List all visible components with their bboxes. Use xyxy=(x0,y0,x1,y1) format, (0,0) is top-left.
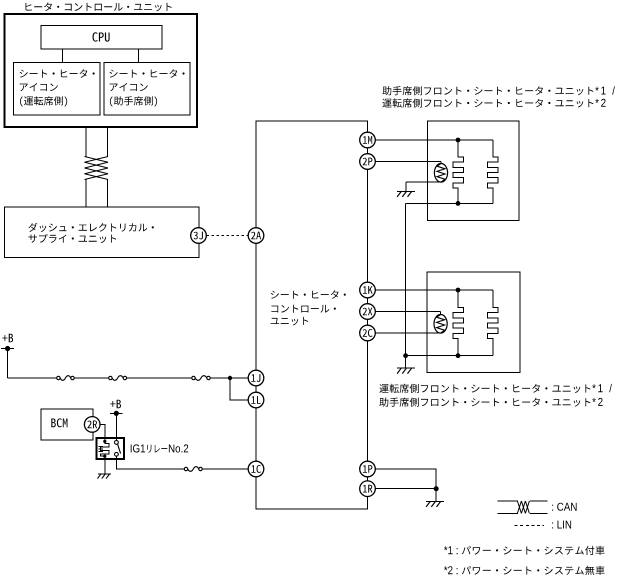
connector 1C xyxy=(248,461,264,477)
thermistor 1 xyxy=(434,164,447,183)
front seat heater unit 2 label xyxy=(379,384,612,407)
legend CAN twisted pair symbol xyxy=(498,501,548,513)
ground G3 xyxy=(426,501,444,507)
front seat heater unit 2 box xyxy=(427,272,520,372)
wire 2X to thermistor 2 xyxy=(375,311,440,313)
seat heater control unit label xyxy=(271,290,346,325)
wire 1M to heater elements xyxy=(375,139,493,141)
connector 1P xyxy=(360,461,376,477)
seat heater control unit box xyxy=(256,121,368,509)
node junction bottom 1 xyxy=(456,201,461,206)
wire relay to 1C xyxy=(116,456,184,469)
connector 2C xyxy=(360,325,376,341)
note *1 xyxy=(444,546,605,555)
relay IG1 No.2 box xyxy=(97,438,125,459)
front seat heater unit 1 box xyxy=(428,121,519,221)
wire 1K to heater elements xyxy=(375,289,493,291)
heater element 1b xyxy=(487,140,498,203)
fuse F4 xyxy=(184,467,202,472)
heater control unit box xyxy=(5,14,198,127)
node junction ground 2 xyxy=(403,353,408,358)
node junction 1P/1R ground xyxy=(434,486,439,491)
CPU label xyxy=(93,32,110,41)
heater element 2b xyxy=(487,290,498,356)
node junction top 1 xyxy=(456,138,461,143)
ground G1 xyxy=(397,191,415,197)
BCM box xyxy=(41,409,93,440)
connector 1R xyxy=(360,481,376,497)
wire 2C to thermistor 2 xyxy=(375,332,440,334)
connector 2R xyxy=(84,417,100,433)
heater element 1a xyxy=(453,140,464,203)
relay coil xyxy=(98,440,109,458)
connector 3J xyxy=(191,228,207,244)
wire 1P to ground xyxy=(375,469,436,489)
wire +B to 1J xyxy=(8,377,57,379)
wire relay coil to ground xyxy=(104,456,106,474)
node junction bottom 2 xyxy=(456,353,461,358)
wire to 1L xyxy=(230,378,248,400)
node junction top 2 xyxy=(456,288,461,293)
node junction 1J/1L xyxy=(228,376,232,380)
+B terminal 1 xyxy=(1,346,14,351)
wire bottom rail 1 xyxy=(406,202,493,204)
wire +B down xyxy=(7,349,9,379)
wire 2R to relay coil xyxy=(100,424,105,441)
wire LIN 3J to 2A xyxy=(206,235,248,237)
wire CPU to left icon xyxy=(62,49,64,63)
fuse F3 xyxy=(192,376,210,381)
relay IG1 No.2 label xyxy=(131,444,189,452)
+B terminal 2 xyxy=(110,411,123,416)
+B battery label 2 xyxy=(110,400,121,409)
legend LIN dashed symbol xyxy=(515,524,544,526)
connector 1J xyxy=(248,370,264,386)
BCM label xyxy=(51,418,67,427)
connector 2A xyxy=(248,228,264,244)
connector 1L xyxy=(248,392,264,408)
relay switch contact xyxy=(115,441,121,457)
wire thermistor 1 to ground xyxy=(406,181,441,183)
thermistor 2 xyxy=(434,315,447,334)
wire CPU to right icon xyxy=(138,49,140,63)
wire 2P to thermistor xyxy=(375,161,441,163)
wire bottom rail 2 xyxy=(406,355,493,357)
legend LIN text xyxy=(552,521,571,529)
legend CAN text xyxy=(552,503,576,511)
front seat heater unit 1 label xyxy=(382,86,615,108)
wire +B to relay switch xyxy=(115,413,117,442)
seat heater icon (driver) label xyxy=(20,69,95,106)
dash electrical supply unit box xyxy=(5,207,200,257)
dash electrical supply unit label xyxy=(28,223,153,243)
fuse F1 xyxy=(57,376,75,381)
connector 1K xyxy=(360,282,376,298)
wire down to G3 xyxy=(435,489,437,502)
wire heater 1 return xyxy=(405,203,407,355)
wire to ground G2 xyxy=(405,356,407,368)
heater element 2a xyxy=(453,290,464,356)
wire 1R to ground xyxy=(375,488,436,490)
fuse F2 xyxy=(109,376,127,381)
ground G4 relay xyxy=(98,474,112,479)
heater control unit label xyxy=(26,3,172,12)
ground G2 xyxy=(397,368,415,374)
connector 2P xyxy=(360,154,376,170)
seat heater icon (passenger) box xyxy=(104,63,190,116)
CPU U1 box xyxy=(41,26,162,50)
seat heater icon (driver) box xyxy=(14,63,101,116)
seat heater icon (passenger) label xyxy=(110,69,185,106)
+B battery label 1 xyxy=(2,334,13,343)
connector 2X xyxy=(360,304,376,320)
connector 1M xyxy=(360,132,376,148)
note *2 xyxy=(444,566,605,575)
CAN twisted pair wire xyxy=(85,127,109,207)
